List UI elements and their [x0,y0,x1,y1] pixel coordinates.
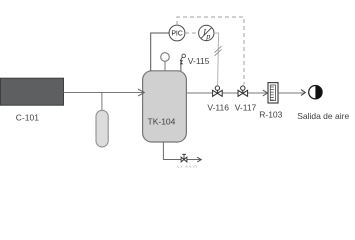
controller PIC [169,25,185,41]
damper vessel (capsule) [96,110,108,147]
svg-text:V-118: V-118 [177,165,198,169]
svg-text:PIC: PIC [171,31,182,38]
svg-text:R-103: R-103 [259,110,282,120]
svg-text:V-115: V-115 [188,56,210,66]
outlet pipe tank to R-103 [187,92,268,94]
svg-text:Salida de aire: Salida de aire [297,111,349,121]
pneumatic signal I/P to V-116 [214,33,219,85]
svg-text:V-116: V-116 [207,103,229,113]
pipe R-103 to outlet [279,92,305,94]
impulse line tank to PIC [151,33,170,71]
pressure gauge on tank top [161,53,170,71]
pneumatic slash marks [215,46,222,56]
outlet arrow [301,90,305,96]
vent valve V-115 [180,54,186,71]
electric signal PIC to I/P [185,32,199,34]
electric signal loop PIC to V-117 [177,17,244,85]
svg-text:V-117: V-117 [235,103,257,113]
transducer I/P [199,25,214,41]
svg-text:C-101: C-101 [16,112,39,122]
valve V-116 [213,86,223,96]
drain line from tank bottom [163,142,200,160]
inlet arrow at tank wall [138,89,144,96]
tank TK-104 [143,71,187,142]
outlet connector (half filled circle) [309,86,322,99]
rotameter R-103 [268,83,278,103]
control valve V-117 [238,86,248,96]
drain arrow [197,157,201,162]
pipe C-101 to TK-104 [64,92,144,94]
arrow into R-103 [263,90,268,96]
stem to damper vessel [101,93,103,112]
svg-text:p: p [205,32,210,41]
compressor C-101 [1,78,64,105]
svg-text:TK-104: TK-104 [148,117,176,127]
drain valve [181,154,187,162]
